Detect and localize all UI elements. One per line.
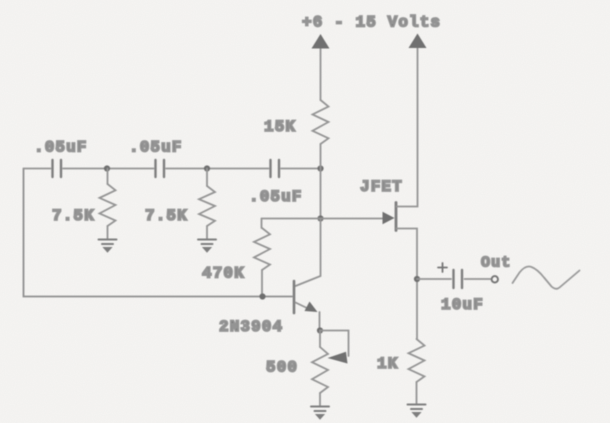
wire: pot wiper loop [320, 331, 349, 357]
transistor Q1 emitter line [296, 303, 311, 310]
svg-text:.05uF: .05uF [129, 139, 183, 157]
JFET Q2 channel bar [395, 203, 398, 231]
capacitor C4 10uF plates [454, 270, 463, 288]
node junction J6 emitter node [317, 327, 323, 333]
node junction J4 gate node [317, 215, 323, 221]
sine wave symbol [513, 267, 580, 289]
power V+ arrow left [320, 47, 322, 100]
wire: emitter node down to pot [319, 331, 321, 348]
svg-text:2N3904: 2N3904 [219, 318, 283, 336]
wire: gate node down to collector [296, 219, 321, 287]
wire: 1K to ground [416, 382, 418, 404]
svg-text:.05uF: .05uF [249, 188, 303, 206]
wire: 15K to J3 and down to gate node [320, 144, 322, 219]
svg-text:JFET: JFET [360, 178, 403, 196]
wire: pot to ground [319, 393, 321, 406]
power V+ arrow right [409, 34, 427, 49]
node junction J5 base node [259, 293, 265, 299]
ground under R2 [198, 240, 216, 253]
wire: 470K to base node [261, 270, 263, 297]
plus sign polarity mark [438, 263, 447, 272]
node junction J7 source node [414, 276, 420, 282]
svg-text:500: 500 [266, 359, 298, 377]
wire: feedback left vertical and bottom run to base [24, 169, 293, 297]
output terminal circle [492, 276, 498, 282]
svg-text:+6 - 15 Volts: +6 - 15 Volts [302, 14, 441, 32]
capacitor C1 .05uF plates [53, 160, 62, 177]
svg-text:.05uF: .05uF [34, 139, 88, 157]
ground under pot [311, 407, 329, 420]
transistor Q1 2N3904 base bar [293, 281, 296, 313]
node junction J3 [317, 165, 323, 171]
ground under 1K [408, 405, 426, 418]
wire: emitter down to emitter node [319, 312, 321, 331]
resistor R5 1K [409, 339, 425, 382]
transistor Q1 emitter arrow [305, 302, 318, 313]
svg-text:7.5K: 7.5K [145, 207, 188, 225]
wire: 470K corner down [261, 219, 263, 229]
potentiometer R4 500 [312, 347, 328, 393]
wire: cap to output terminal [465, 278, 491, 280]
wire: top RC chain segment 1 [24, 168, 51, 170]
svg-text:1K: 1K [377, 355, 398, 373]
ground under R1 [99, 240, 117, 253]
node junction J2 [204, 165, 210, 171]
wire: chain segment 2 [63, 168, 154, 170]
capacitor C3 .05uF plates [271, 160, 280, 177]
wire: J1 down to R1 [107, 169, 109, 185]
wire: chain segment 3 [166, 168, 269, 170]
JFET Q2 gate arrow [383, 212, 395, 224]
wire: J2 down to R2 [206, 169, 208, 187]
wire: R2 to ground [206, 226, 208, 239]
svg-text:Out: Out [481, 255, 511, 272]
resistor R3 470K [254, 228, 270, 270]
pot wiper arrow [328, 352, 348, 364]
resistor R6 15K [313, 100, 329, 144]
wire: JFET source down [397, 229, 418, 340]
node junction J1 [104, 165, 110, 171]
resistor R2 7.5K [199, 186, 215, 226]
resistor R1 7.5K [100, 184, 116, 226]
wire: gate line from 470K corner to JFET [262, 218, 385, 220]
svg-text:7.5K: 7.5K [52, 207, 95, 225]
wire: JFET drain to V+ [397, 47, 418, 207]
svg-text:15K: 15K [264, 118, 296, 136]
wire: R1 to ground [107, 226, 109, 239]
wire: source node to output cap [417, 278, 451, 280]
svg-text:10uF: 10uF [441, 296, 484, 314]
capacitor C2 .05uF plates [156, 160, 165, 177]
wire: chain segment 4 to 15K node [281, 168, 321, 170]
svg-text:470K: 470K [202, 265, 245, 283]
